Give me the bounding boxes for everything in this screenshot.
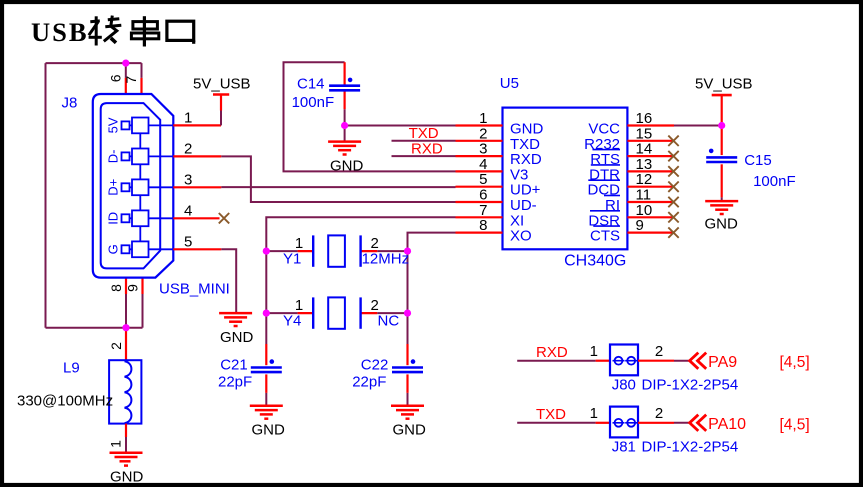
svg-text:GND: GND [705, 216, 739, 233]
svg-text:5: 5 [184, 233, 192, 250]
svg-text:1: 1 [108, 440, 124, 448]
svg-text:D+: D+ [105, 179, 120, 196]
svg-text:RXD: RXD [411, 140, 443, 157]
wire C14 bottom feed maroon [344, 109, 346, 141]
USB pin numbers [184, 109, 192, 250]
wire VCC net [674, 125, 722, 127]
svg-text:J8: J8 [62, 95, 78, 112]
chip left stubs [456, 126, 503, 233]
crystal Y1 [313, 235, 360, 266]
svg-text:8: 8 [108, 284, 124, 292]
svg-text:1: 1 [590, 343, 598, 360]
svg-text:GND: GND [110, 469, 144, 486]
svg-text:C15: C15 [744, 152, 772, 169]
svg-text:1: 1 [184, 109, 192, 126]
wire TXD stub [392, 140, 456, 142]
pin 8 stub [125, 278, 127, 294]
svg-text:CTS: CTS [590, 228, 620, 245]
svg-text:2: 2 [655, 405, 663, 422]
wire C21 to gnd [265, 374, 267, 393]
svg-text:330@100MHz: 330@100MHz [17, 393, 113, 410]
chevrons PA9 [690, 353, 707, 369]
svg-text:U5: U5 [500, 75, 519, 92]
gnd symbol C22 [391, 406, 424, 419]
svg-text:RXD: RXD [536, 344, 568, 361]
wire Y1-Y4 right vertical [407, 251, 409, 313]
svg-text:[4,5]: [4,5] [780, 416, 810, 433]
wire C14 top feed [344, 62, 346, 85]
wire bottom [46, 327, 143, 329]
svg-text:C22: C22 [361, 357, 389, 374]
inductor L9 [109, 360, 141, 423]
wire XI net [266, 217, 455, 251]
USB pin stubs 1-5 [173, 125, 221, 249]
svg-text:CH340G: CH340G [564, 253, 626, 270]
svg-text:ID: ID [105, 212, 120, 225]
svg-text:L9: L9 [63, 360, 80, 377]
J8 pin chain vertical [139, 125, 141, 249]
svg-text:PA9: PA9 [708, 354, 737, 371]
svg-text:J81: J81 [612, 439, 636, 456]
wire V3 loop [284, 62, 456, 171]
wire L9 to gnd [125, 424, 127, 437]
svg-text:2: 2 [184, 140, 192, 157]
svg-text:GND: GND [220, 329, 254, 346]
J80 wire left [517, 360, 595, 362]
wire C15 to gnd [721, 164, 723, 197]
svg-text:6: 6 [107, 74, 123, 82]
pin 7 stub [140, 78, 142, 95]
capacitor C21 [251, 359, 282, 372]
junction dot Y4 left [263, 310, 270, 317]
capacitor C14 [329, 78, 360, 91]
crystal Y1 stubs [298, 250, 378, 252]
svg-text:2: 2 [371, 297, 379, 314]
wire left vertical [45, 63, 47, 328]
wire GND net to chip pin1 [345, 125, 456, 127]
junction dot bottom [122, 324, 129, 331]
svg-text:GND: GND [252, 421, 286, 438]
pin 9 stub [141, 278, 143, 294]
chip left pin numbers [479, 110, 487, 234]
wire pin9 lower [142, 294, 144, 328]
chip U5 body [503, 108, 628, 250]
junction dot Y1 left [263, 248, 270, 255]
wire junction to L9 [125, 328, 127, 331]
J8 pin rows [122, 118, 174, 258]
svg-text:G: G [105, 244, 120, 254]
svg-text:Y4: Y4 [283, 313, 301, 330]
gnd symbol usb pin5 [219, 313, 252, 326]
svg-text:USB: USB [31, 17, 89, 47]
junction dot top [122, 60, 129, 67]
svg-text:TXD: TXD [536, 406, 566, 423]
junction dot C14 [341, 122, 348, 129]
junction dot Y4 right [404, 310, 411, 317]
svg-text:2: 2 [108, 342, 124, 350]
svg-text:5V_USB: 5V_USB [193, 76, 251, 93]
wire Y4 to C22 [407, 313, 409, 344]
title glyph chuan [131, 16, 158, 46]
wire Y4 left [266, 312, 297, 314]
pin 6 stub [125, 78, 127, 95]
svg-text:22pF: 22pF [352, 374, 386, 391]
wire GND usb pin5 [221, 249, 236, 313]
chip right pin names [584, 121, 620, 245]
junction dot VCC [718, 122, 725, 129]
wire D- net [221, 156, 455, 202]
svg-text:USB_MINI: USB_MINI [159, 281, 230, 298]
gnd symbol L9 [110, 453, 143, 466]
svg-text:GND: GND [330, 158, 364, 175]
junction dot Y1 right [404, 248, 411, 255]
chip right pin numbers [636, 110, 653, 234]
svg-text:PA10: PA10 [708, 416, 746, 433]
svg-text:9: 9 [125, 284, 141, 292]
wire 5V to pin1 [220, 111, 222, 126]
svg-text:8: 8 [479, 217, 487, 234]
chip left pin names [510, 121, 544, 245]
wire XO net [408, 233, 456, 252]
svg-text:DIP-1X2-2P54: DIP-1X2-2P54 [642, 377, 739, 394]
title glyph zhuan [89, 16, 122, 46]
svg-text:C21: C21 [220, 357, 248, 374]
svg-text:4: 4 [184, 202, 192, 219]
svg-text:GND: GND [393, 421, 427, 438]
svg-text:7: 7 [123, 76, 139, 84]
svg-text:Y1: Y1 [283, 251, 301, 268]
svg-text:2: 2 [371, 235, 379, 252]
capacitor C15 [706, 149, 737, 162]
svg-text:D-: D- [105, 150, 120, 164]
svg-text:12MHz: 12MHz [362, 251, 410, 268]
connector J8 outer outline [93, 94, 174, 278]
svg-text:100nF: 100nF [292, 94, 335, 111]
svg-text:5V_USB: 5V_USB [695, 76, 753, 93]
svg-text:3: 3 [184, 171, 192, 188]
svg-text:[4,5]: [4,5] [780, 354, 810, 371]
chevrons PA10 [690, 415, 707, 431]
capacitor C22 [392, 359, 423, 372]
svg-text:1: 1 [590, 405, 598, 422]
wire C22 to gnd [406, 374, 408, 393]
wire D+ net [221, 186, 455, 188]
svg-text:2: 2 [655, 343, 663, 360]
svg-text:XO: XO [510, 228, 532, 245]
gnd symbol C21 [250, 406, 283, 419]
wire pin6 upper [125, 63, 127, 78]
wire top loop [46, 62, 142, 64]
connector J8 inner outline [101, 103, 161, 268]
wire Y1 left [266, 250, 297, 252]
active low overlines [588, 150, 620, 227]
wire C14 bottom feed red [344, 90, 346, 109]
gnd symbol C15 [705, 201, 738, 214]
svg-text:C14: C14 [297, 76, 325, 93]
svg-text:5V: 5V [105, 117, 120, 133]
svg-text:J80: J80 [612, 377, 636, 394]
wire Y4 right [377, 312, 407, 314]
svg-text:1: 1 [295, 235, 303, 252]
wire Y1-Y4 left vertical [265, 251, 267, 313]
wire RXD stub [392, 155, 456, 157]
crystal Y4 stubs [298, 312, 378, 314]
svg-text:DIP-1X2-2P54: DIP-1X2-2P54 [642, 439, 739, 456]
no connect X marks chip [668, 136, 678, 238]
wire pin7 upper [141, 63, 143, 78]
J80 wire right [638, 360, 674, 362]
svg-text:9: 9 [636, 217, 644, 234]
title glyph kou [167, 21, 194, 44]
no connect X pin4 [219, 213, 229, 223]
connector J80 [610, 345, 638, 376]
J81 wire right [638, 422, 674, 424]
connector J81 [610, 407, 638, 438]
svg-text:1: 1 [295, 297, 303, 314]
wire Y4 to C21 [265, 313, 267, 344]
crystal Y4 [313, 297, 360, 328]
chip right stubs [627, 126, 674, 233]
svg-text:100nF: 100nF [753, 173, 796, 190]
wire Y1 right [377, 250, 407, 252]
gnd symbol C14 [328, 142, 361, 155]
wire pin8 lower [125, 294, 127, 328]
svg-text:NC: NC [378, 313, 400, 330]
wire to C15 [721, 126, 723, 156]
svg-text:22pF: 22pF [218, 374, 252, 391]
J81 wire left [517, 422, 595, 424]
